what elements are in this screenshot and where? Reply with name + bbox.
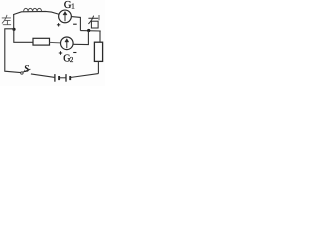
- wire: right box bottom down to bottom-right corner: [97, 61, 99, 73]
- wire: G1 right to corner and down: [71, 17, 80, 31]
- inductor coil L (4 humps): [24, 8, 42, 11]
- node dot left: [12, 28, 15, 31]
- galvanometer G1 circle: [59, 10, 72, 23]
- svg-text:S: S: [24, 64, 30, 75]
- svg-text:2: 2: [70, 56, 74, 64]
- switch S pivot circle: [21, 72, 23, 74]
- wire: G2 right to corner and up to right node: [73, 31, 88, 45]
- small tick mark right of 右: [98, 15, 100, 20]
- cell2 short plate: [69, 76, 71, 80]
- cell1 short plate: [58, 76, 60, 80]
- node dot right: [87, 29, 90, 32]
- wire: switch contact to battery: [31, 74, 55, 78]
- label 左 (left): [2, 15, 11, 25]
- label 右 (right): [89, 16, 98, 28]
- wire: down into right box top: [99, 31, 101, 42]
- wire: top run with rise to coil and dip to G1: [13, 11, 59, 14]
- resistor box R2 (right vertical): [94, 42, 102, 61]
- wire: left node jog left and long left vertical: [5, 29, 21, 73]
- wire between cells: [59, 77, 66, 79]
- galvanometer G2 circle: [61, 37, 74, 50]
- wire: left vertical upper (corner to node): [13, 14, 15, 29]
- wire: horizontal to right box corner: [80, 30, 100, 32]
- minus sign at G2 right: [73, 52, 76, 54]
- background: [0, 0, 105, 86]
- G2 pointer arrow: [65, 39, 69, 49]
- cell1 long plate: [54, 74, 56, 82]
- minus sign at G1 right: [73, 23, 77, 25]
- wire: resistor to G2: [50, 41, 61, 44]
- G1 pointer arrow: [63, 11, 67, 21]
- battery cells: [55, 74, 70, 82]
- switch S lever: [23, 69, 31, 72]
- svg-text:1: 1: [71, 3, 75, 11]
- wire: middle branch down from left node and right: [14, 29, 33, 42]
- plus sign at G1 left: [57, 23, 60, 26]
- wire: bottom right run (battery to corner): [70, 74, 98, 78]
- plus sign at G2 left: [59, 51, 62, 55]
- resistor box R1 (middle branch): [33, 38, 50, 45]
- cell2 long plate: [65, 74, 67, 82]
